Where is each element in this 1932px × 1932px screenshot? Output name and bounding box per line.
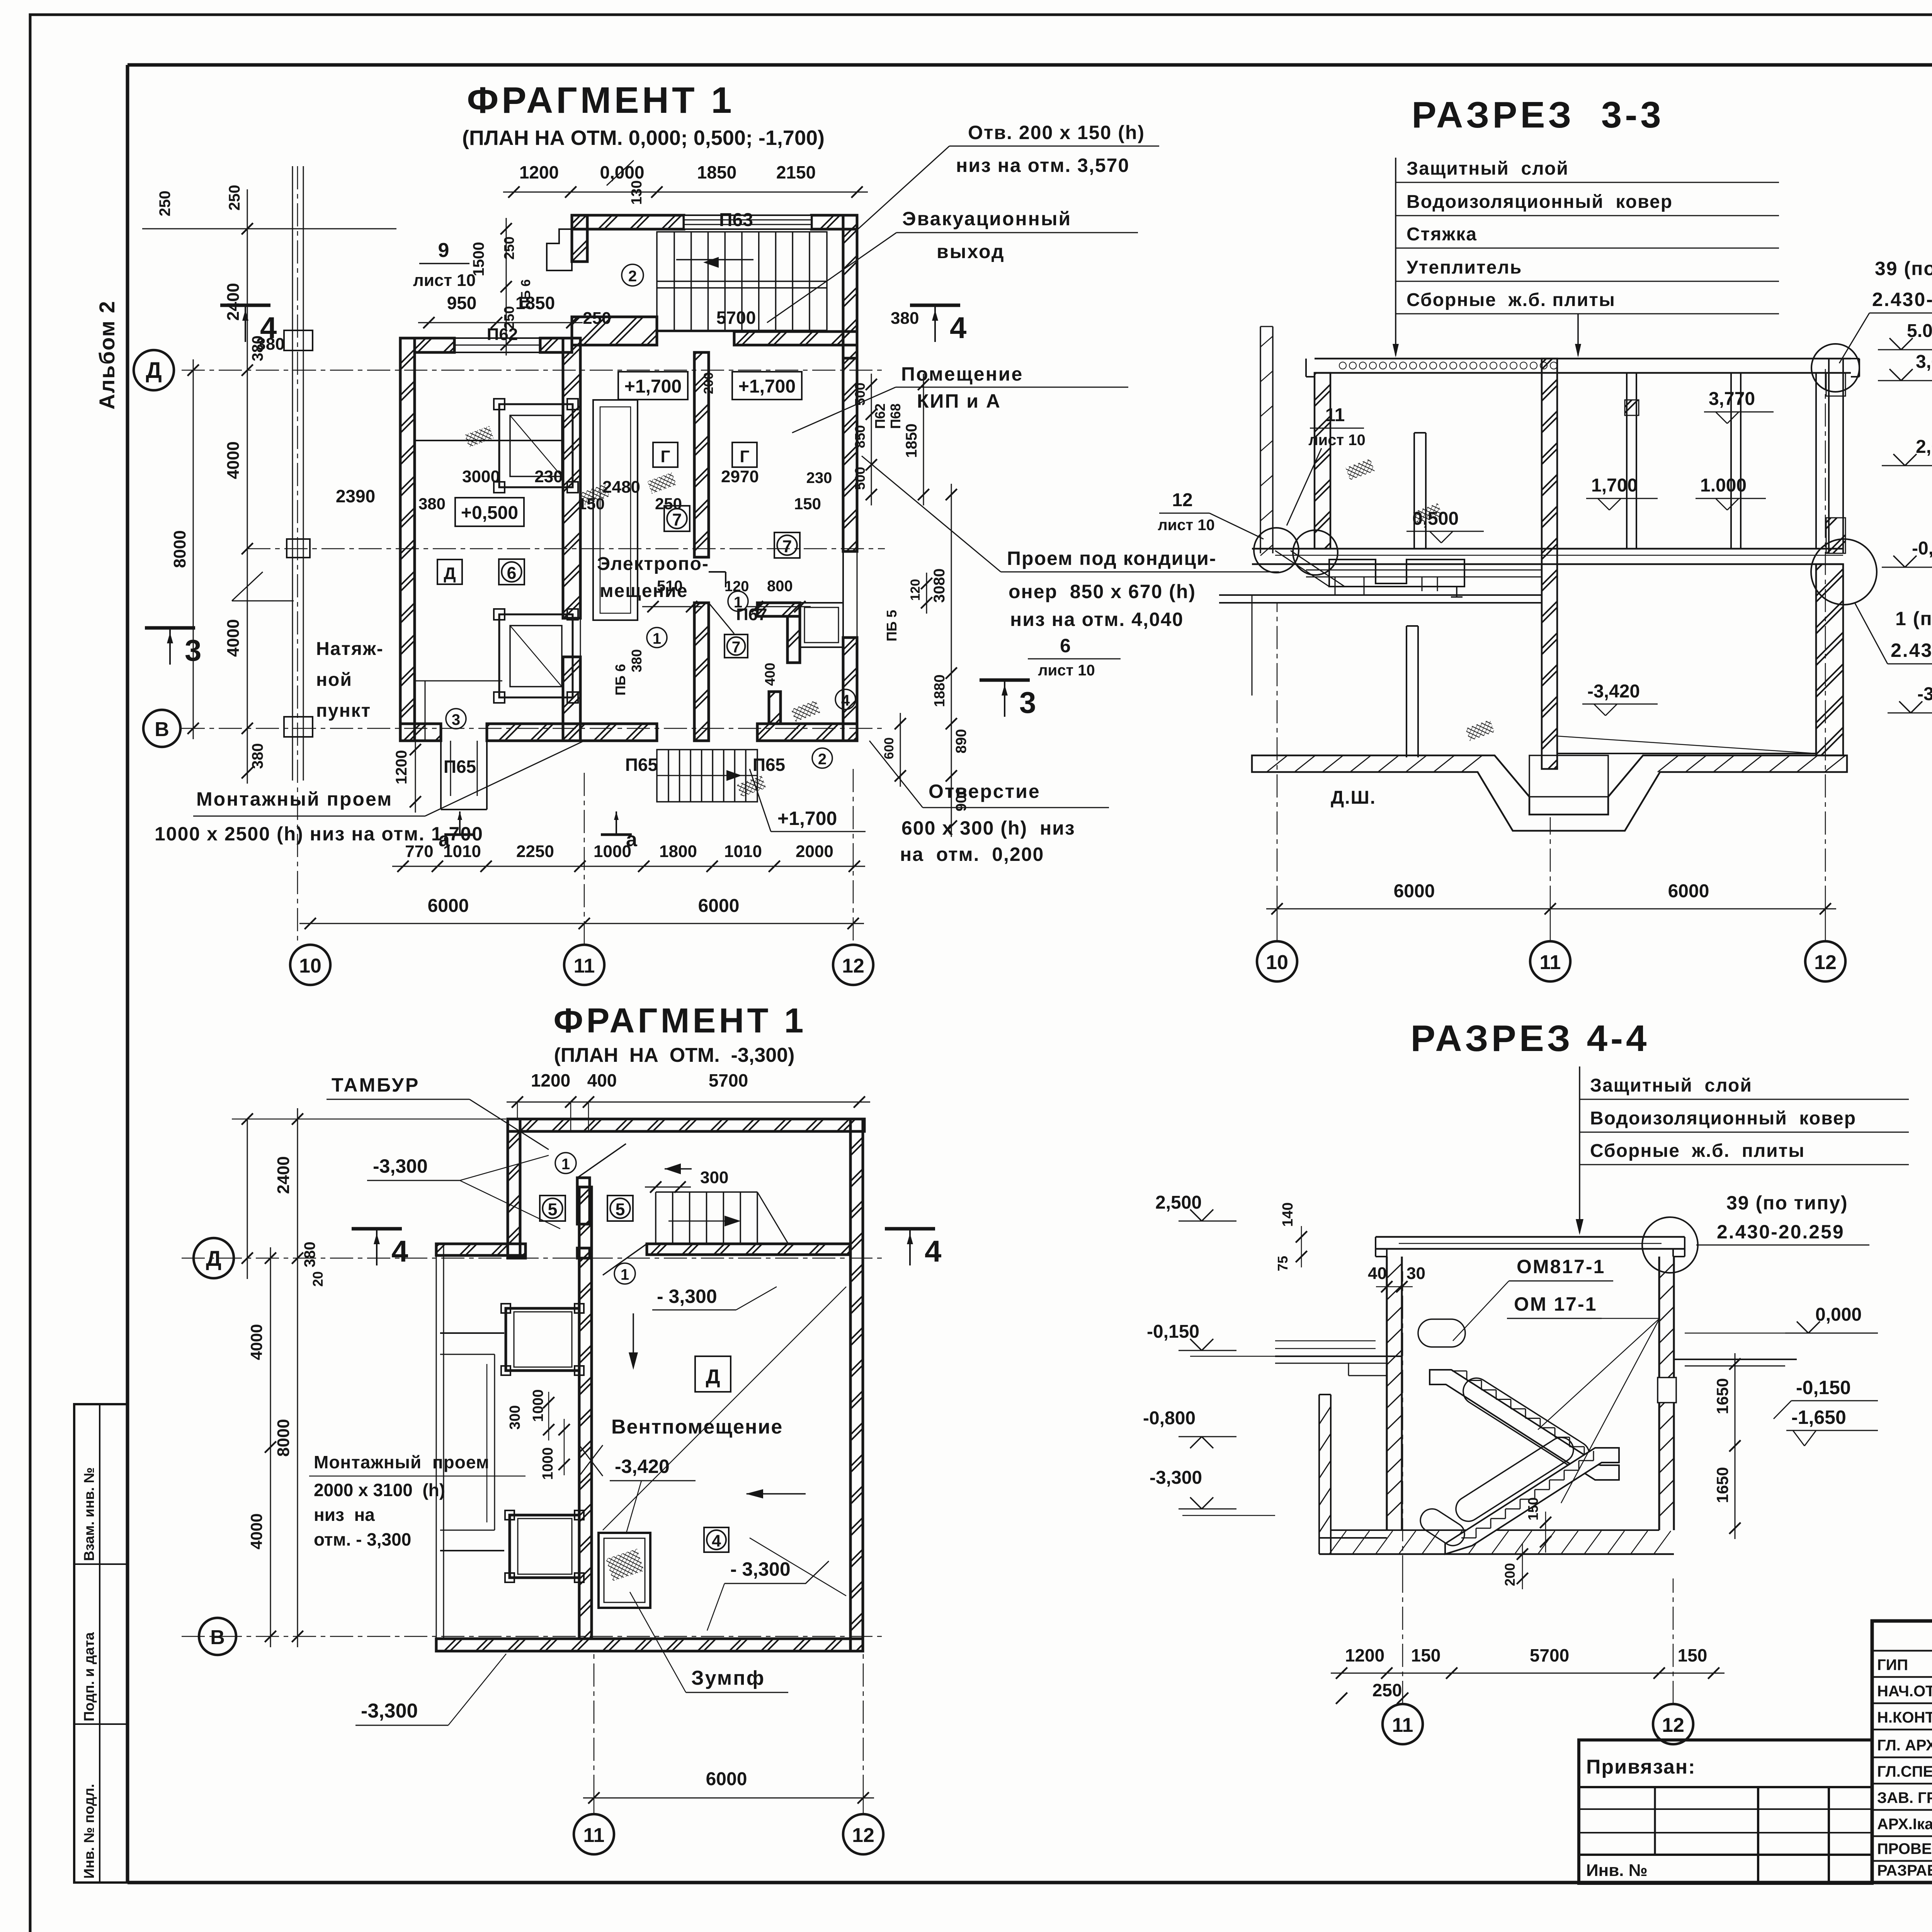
plan2 duct shaft upper: [501, 1304, 584, 1375]
svg-text:2400: 2400: [224, 283, 243, 321]
plan2 left dim chain: [232, 1108, 506, 1647]
section44 axis circle 12: [1653, 1704, 1693, 1744]
title block staff table: [1872, 1621, 1932, 1883]
svg-text:20: 20: [310, 1271, 326, 1287]
svg-text:200: 200: [1502, 1563, 1518, 1586]
svg-text:150: 150: [1678, 1645, 1708, 1665]
svg-text:1000 х 2500 (h) низ на отм. 1,: 1000 х 2500 (h) низ на отм. 1,700: [155, 823, 483, 845]
svg-text:600: 600: [882, 737, 896, 759]
svg-text:39 (по типу): 39 (по типу): [1875, 258, 1932, 279]
section33 title: [1412, 94, 1664, 136]
svg-text:Подп. и дата: Подп. и дата: [81, 1632, 97, 1721]
svg-text:7: 7: [672, 510, 682, 529]
svg-text:0,500: 0,500: [1412, 509, 1459, 529]
svg-text:150: 150: [1525, 1497, 1541, 1520]
section44 left wall: [1387, 1257, 1402, 1530]
plan1 axis circle 11: [564, 945, 604, 985]
svg-text:РАЗРАБ.: РАЗРАБ.: [1877, 1862, 1932, 1879]
plan1 axis 12 line: [853, 769, 854, 945]
svg-text:6: 6: [1060, 635, 1071, 656]
svg-text:отм. - 3,300: отм. - 3,300: [314, 1529, 411, 1549]
svg-text:Взам. инв. №: Взам. инв. №: [81, 1467, 97, 1561]
section44 stair labels: [1453, 1256, 1660, 1503]
svg-text:ГИП: ГИП: [1877, 1656, 1908, 1673]
svg-text:890: 890: [953, 729, 969, 753]
svg-text:Инв. №: Инв. №: [1586, 1861, 1648, 1880]
plan2 montage opening partitions: [440, 1333, 603, 1551]
svg-text:1650: 1650: [1713, 1378, 1731, 1414]
title block frame: [1872, 1621, 1932, 1883]
svg-text:3: 3: [1019, 685, 1036, 719]
svg-text:0,000: 0,000: [1815, 1304, 1862, 1325]
svg-text:150: 150: [1411, 1645, 1441, 1665]
plan1 central wall: [563, 338, 580, 741]
plan1 symbol 6 box: [499, 559, 524, 585]
plan2 circled 1 top: [555, 1153, 576, 1173]
svg-text:12: 12: [842, 955, 864, 977]
svg-text:800: 800: [767, 578, 793, 595]
left margin table Взам.инв.№ / Подп. и дата / Инв.№ подл.: [74, 1404, 128, 1883]
plan1 axis 10 line: [297, 166, 298, 945]
svg-text:5700: 5700: [709, 1070, 748, 1090]
plan1 circled 1 electro: [647, 628, 667, 648]
section33 detail circle wall base: [1811, 539, 1877, 605]
plan2 bottom dim 6000: [583, 1651, 874, 1804]
plan2 text -3,300 upper leader: [367, 1155, 560, 1229]
plan1 circled 1 right: [728, 591, 748, 611]
plan1 bottom dim 6000 6000: [299, 896, 864, 929]
plan1 room letter Г boxes: [653, 442, 757, 467]
privyazan table: [1579, 1740, 1872, 1883]
plan1 axis row mid line: [247, 548, 885, 549]
svg-text:П65: П65: [444, 757, 476, 777]
svg-text:-0,150: -0,150: [1912, 538, 1932, 559]
plan1 axis 11 line: [584, 773, 585, 945]
svg-text:Защитный слой: Защитный слой: [1590, 1075, 1752, 1096]
plan1 dim 250-0-150-250 col: [470, 218, 533, 355]
svg-text:2: 2: [818, 751, 827, 768]
svg-text:2000 х 3100 (h): 2000 х 3100 (h): [314, 1480, 445, 1500]
svg-text:30: 30: [1406, 1264, 1425, 1283]
svg-text:Водоизоляционный ковер: Водоизоляционный ковер: [1590, 1108, 1856, 1129]
plan2 axis circle 12: [843, 1798, 883, 1854]
svg-text:Д: Д: [146, 358, 162, 383]
svg-text:11: 11: [1392, 1714, 1413, 1736]
plan1 section mark 4 left: [220, 305, 277, 345]
svg-text:РАЗРЕЗ 4-4: РАЗРЕЗ 4-4: [1411, 1018, 1650, 1059]
svg-text:выход: выход: [937, 241, 1005, 262]
plan1 circled 4: [835, 689, 855, 709]
plan1 dims 510 120 800 row: [642, 578, 811, 624]
svg-text:12: 12: [1662, 1714, 1684, 1736]
plan2 axis B line: [182, 1636, 885, 1637]
section33 axis circle 12: [1805, 909, 1845, 981]
section44 title: [1411, 1018, 1650, 1059]
svg-text:1800: 1800: [659, 842, 697, 861]
svg-text:Проем под кондици-: Проем под кондици-: [1007, 548, 1216, 569]
plan1 leader Отв 200x150: [857, 122, 1159, 230]
svg-text:Защитный слой: Защитный слой: [1406, 158, 1569, 179]
svg-text:П62: П62: [872, 403, 888, 429]
plan1 partition room3: [415, 440, 564, 741]
svg-text:низ на отм. 3,570: низ на отм. 3,570: [956, 155, 1129, 176]
plan1 external stair bottom: [657, 750, 757, 802]
svg-text:1200: 1200: [519, 162, 559, 182]
svg-text:2,000: 2,000: [1916, 437, 1932, 457]
plan1 material hatch marks: [464, 426, 820, 797]
plan1 label P63: [719, 210, 753, 230]
svg-text:Д: Д: [706, 1366, 720, 1388]
svg-text:ПРОВЕР.: ПРОВЕР.: [1877, 1840, 1932, 1857]
plan1 leader Помещение КИП и А: [792, 363, 1128, 433]
section33 bottom dims: [1266, 369, 1836, 915]
svg-text:Монтажный проем: Монтажный проем: [196, 788, 393, 810]
section33 right lower wall: [1816, 564, 1843, 755]
section33 upper left wall: [1315, 373, 1330, 549]
svg-text:250: 250: [583, 309, 611, 328]
plan1 corner room small walls: [757, 603, 843, 724]
svg-text:4: 4: [950, 311, 966, 345]
svg-text:11: 11: [1325, 405, 1345, 425]
plan2 axis D line: [182, 1258, 885, 1259]
svg-text:- 3,300: - 3,300: [657, 1286, 717, 1307]
svg-text:Г: Г: [740, 447, 750, 466]
svg-text:200: 200: [701, 372, 716, 394]
svg-text:600 х 300 (h) низ: 600 х 300 (h) низ: [901, 817, 1075, 839]
svg-text:4: 4: [841, 692, 850, 709]
plan1 room text Электропомещение: [597, 554, 709, 601]
svg-text:ФРАГМЕНТ 1: ФРАГМЕНТ 1: [554, 1002, 807, 1040]
plan1 dim 380 left: [256, 335, 284, 354]
section33 callout 1 po tipu: [1855, 603, 1932, 664]
svg-text:лист 10: лист 10: [1038, 662, 1095, 679]
svg-text:Инв. № подл.: Инв. № подл.: [81, 1784, 97, 1879]
svg-text:низ на отм. 4,040: низ на отм. 4,040: [1010, 609, 1184, 630]
plan1 level box +0,500: [455, 498, 524, 526]
section33 axis circle 11: [1530, 909, 1570, 981]
plan2 montage note: [309, 1452, 526, 1549]
svg-text:1: 1: [621, 1266, 629, 1283]
svg-text:+1,700: +1,700: [624, 376, 682, 397]
section44 roof slab: [1376, 1237, 1685, 1257]
svg-text:РАЗРЕЗ 3-3: РАЗРЕЗ 3-3: [1412, 94, 1664, 136]
svg-text:6000: 6000: [1668, 881, 1709, 901]
plan2 circled 1 mid: [614, 1263, 635, 1284]
plan1 symbol 7 box right: [774, 532, 800, 558]
svg-text:-0,150: -0,150: [1147, 1321, 1199, 1342]
section33 upper right columns: [1625, 373, 1816, 549]
svg-text:3: 3: [185, 633, 201, 667]
svg-text:850: 850: [852, 425, 868, 448]
plan1 level box +1,700 right: [732, 372, 802, 400]
plan2 boxed 5 symbols: [540, 1196, 633, 1221]
svg-text:1,700: 1,700: [1591, 475, 1638, 496]
svg-text:6000: 6000: [706, 1769, 747, 1789]
section44 roof layers callout: [1576, 1066, 1909, 1235]
svg-text:ОМ817-1: ОМ817-1: [1517, 1256, 1605, 1277]
section33 mid wall: [1542, 359, 1557, 769]
plan2 rotated dims 300 1000 1000: [507, 1389, 570, 1480]
svg-text:ТАМБУР: ТАМБУР: [332, 1074, 420, 1096]
section33 label DSh: [1331, 787, 1376, 808]
left margin vertical label Альбом 2: [95, 300, 119, 410]
plan2 central wall: [579, 1187, 592, 1639]
svg-text:1850: 1850: [903, 423, 920, 458]
plan2 zumpf pit: [599, 1533, 650, 1608]
svg-text:40: 40: [1368, 1264, 1387, 1283]
section33 foundation slab: [1252, 755, 1847, 831]
svg-text:6: 6: [507, 564, 517, 583]
svg-text:8000: 8000: [274, 1419, 293, 1457]
plan2 tambour walls: [508, 1131, 626, 1258]
svg-text:12: 12: [1814, 951, 1837, 974]
plan1 dim 5700: [657, 308, 827, 332]
svg-text:Сборные ж.б. плиты: Сборные ж.б. плиты: [1590, 1141, 1805, 1161]
svg-text:+0,500: +0,500: [461, 503, 518, 523]
svg-text:Утеплитель: Утеплитель: [1406, 257, 1522, 278]
plan2 leader Тамбур: [327, 1074, 549, 1150]
section44 left level marks: [1143, 1192, 1387, 1515]
svg-text:6000: 6000: [698, 896, 740, 916]
plan2 axis circle D: [194, 1238, 234, 1278]
svg-text:низ на: низ на: [314, 1505, 375, 1525]
plan1 room letter Д box: [437, 560, 462, 584]
plan2 axis circle 11: [574, 1798, 614, 1854]
svg-text:380: 380: [249, 743, 266, 769]
svg-text:Эвакуационный: Эвакуационный: [902, 208, 1071, 230]
plan2 stair room wall: [603, 1244, 850, 1275]
plan2 section mark 4 right: [885, 1229, 941, 1268]
section44 dim 150 200 small: [1502, 1497, 1551, 1589]
section33 lower interior wall left: [1406, 626, 1418, 757]
svg-text:380: 380: [629, 649, 645, 672]
svg-text:ПБ 6: ПБ 6: [612, 664, 628, 696]
svg-text:250: 250: [226, 185, 243, 211]
svg-text:АРХ.Iкат.: АРХ.Iкат.: [1877, 1816, 1932, 1833]
svg-text:П65: П65: [625, 755, 658, 775]
svg-text:250: 250: [501, 236, 517, 260]
section33 floor beam profile: [1275, 551, 1464, 597]
plan1 circled 3: [446, 709, 466, 729]
svg-text:Вентпомещение: Вентпомещение: [611, 1416, 783, 1438]
svg-text:11: 11: [583, 1824, 605, 1847]
svg-text:9: 9: [438, 239, 449, 262]
svg-text:5.000: 5.000: [1907, 321, 1932, 341]
svg-text:П67: П67: [736, 605, 767, 624]
svg-text:а: а: [626, 828, 638, 851]
plan1 left outer wall: [400, 338, 415, 741]
svg-text:-0,150: -0,150: [1796, 1377, 1851, 1398]
svg-text:ОМ 17-1: ОМ 17-1: [1514, 1293, 1597, 1315]
section33 hatch marks: [1345, 459, 1495, 741]
plan2 duct shaft lower: [505, 1510, 584, 1582]
svg-text:-3,420: -3,420: [1587, 681, 1640, 702]
plan1 dim 380 200 small: [612, 372, 778, 696]
svg-text:онер 850 х 670 (h): онер 850 х 670 (h): [1009, 581, 1196, 602]
plan1 right dim col 3080 890 900: [931, 484, 969, 837]
plan1 axis row D line: [182, 370, 885, 371]
section33 right wall: [1826, 359, 1845, 553]
plan1 hoist opening upper: [494, 399, 578, 493]
plan1 dim 1200 porch: [393, 739, 421, 813]
section33 lower right room floor: [1557, 736, 1816, 753]
plan1 wall on axis 10: [232, 166, 313, 781]
plan2 title: [554, 1002, 807, 1066]
plan2 text Вентпомещение: [611, 1416, 783, 1438]
section33 callout circles floor: [1254, 528, 1338, 575]
plan1 title ФРАГМЕНТ 1: [462, 80, 825, 150]
svg-text:4000: 4000: [247, 1514, 265, 1549]
plan1 small partition marks: [709, 572, 734, 634]
plan1 circled 2 stair: [622, 264, 643, 286]
svg-text:140: 140: [1280, 1202, 1296, 1227]
plan2 axis circle B: [199, 1618, 236, 1655]
svg-text:230: 230: [806, 469, 832, 486]
svg-text:-1,650: -1,650: [1791, 1406, 1846, 1428]
plan1 label +1,700 bottom: [750, 769, 866, 832]
plan1 circled 2 bottom: [812, 748, 832, 768]
svg-text:12: 12: [852, 1824, 874, 1847]
svg-text:380: 380: [418, 495, 446, 513]
svg-text:КИП и А: КИП и А: [917, 390, 1001, 412]
svg-text:Отв. 200 х 150 (h): Отв. 200 х 150 (h): [968, 122, 1145, 143]
section33 mid floor slab: [1252, 549, 1843, 595]
section44 right wall: [1658, 1257, 1676, 1530]
plan1 dim 950 1850 line: [418, 293, 611, 344]
section44 left annex: [1319, 1395, 1387, 1554]
section33 level 1000: [1696, 475, 1766, 510]
svg-text:П68: П68: [888, 403, 903, 429]
svg-text:1200: 1200: [393, 750, 410, 784]
plan2 text -3,420: [610, 1456, 696, 1534]
svg-text:Д.Ш.: Д.Ш.: [1331, 787, 1376, 808]
svg-text:6000: 6000: [1394, 881, 1435, 901]
svg-text:лист 10: лист 10: [1308, 432, 1365, 449]
svg-text:Стяжка: Стяжка: [1406, 224, 1477, 245]
plan1 axis circle 12: [833, 945, 873, 985]
svg-text:7: 7: [732, 638, 741, 656]
svg-text:Монтажный проем: Монтажный проем: [314, 1452, 490, 1472]
svg-text:2970: 2970: [721, 467, 759, 486]
svg-text:В: В: [210, 1626, 225, 1649]
svg-text:4: 4: [260, 311, 277, 345]
svg-text:-3,300: -3,300: [373, 1155, 428, 1177]
svg-text:Сборные ж.б. плиты: Сборные ж.б. плиты: [1406, 290, 1616, 310]
svg-text:300: 300: [507, 1405, 523, 1430]
plan1 ref 9 list 10: [413, 239, 476, 290]
plan1 montage opening label: [155, 741, 584, 845]
svg-text:Альбом 2: Альбом 2: [95, 300, 119, 410]
svg-text:230: 230: [534, 467, 563, 486]
svg-text:500: 500: [852, 383, 868, 406]
svg-text:300: 300: [700, 1168, 728, 1187]
svg-text:130: 130: [629, 180, 645, 205]
svg-text:-3,300: -3,300: [361, 1700, 418, 1722]
svg-text:2.430-20.259: 2.430-20.259: [1872, 289, 1932, 310]
svg-text:пункт: пункт: [316, 701, 371, 721]
svg-text:39 (по типу): 39 (по типу): [1726, 1192, 1848, 1214]
section33 callout 39 po tipu: [1839, 258, 1932, 363]
section33 detail circle roof right: [1811, 344, 1859, 392]
svg-text:500: 500: [852, 467, 868, 490]
svg-text:950: 950: [447, 293, 477, 313]
plan2 diagonal leaders big: [603, 1287, 846, 1596]
plan2 text -3,300 room1: [652, 1286, 777, 1310]
section33 ref 11 list10: [1287, 405, 1366, 526]
svg-text:250: 250: [655, 495, 682, 513]
svg-text:1000: 1000: [530, 1389, 546, 1422]
plan1 duct shaft in electro room: [593, 400, 638, 620]
plan1 section mark 4 top: [910, 305, 966, 345]
plan1 leader Эвакуационный выход: [767, 208, 1138, 323]
svg-text:Н.КОНТР.: Н.КОНТР.: [1877, 1709, 1932, 1726]
section44 stair upper flight: [1418, 1319, 1619, 1480]
section33 roof layers callout: [1393, 158, 1779, 357]
svg-text:-3,420: -3,420: [615, 1456, 670, 1477]
plan1 axis row B line: [182, 728, 885, 729]
plan1 symbol 7 box electro: [664, 506, 690, 531]
plan1 symbol 7 box small: [724, 634, 748, 658]
svg-text:2: 2: [628, 268, 637, 285]
plan1 axis circle D: [134, 350, 174, 390]
svg-text:Д: Д: [206, 1246, 221, 1270]
svg-text:1850: 1850: [697, 162, 736, 182]
svg-text:1200: 1200: [531, 1070, 570, 1090]
svg-text:380: 380: [891, 309, 919, 328]
svg-text:3,770: 3,770: [1709, 389, 1755, 409]
svg-text:1.000: 1.000: [1700, 475, 1747, 496]
svg-text:1000: 1000: [540, 1447, 556, 1480]
svg-text:2.430-20.101: 2.430-20.101: [1891, 639, 1932, 661]
plan2 section mark 4 left: [352, 1229, 408, 1268]
svg-text:11: 11: [1540, 951, 1561, 974]
svg-text:11: 11: [574, 955, 595, 977]
section33 lower left floor: [1219, 595, 1542, 696]
svg-text:5700: 5700: [1530, 1645, 1569, 1665]
plan1 ref 6 list 10: [1028, 635, 1121, 679]
section44 bottom slab: [1319, 1530, 1674, 1554]
section33 upper interior partition left: [1414, 433, 1426, 549]
svg-text:4: 4: [925, 1234, 941, 1268]
svg-text:+1,700: +1,700: [777, 808, 837, 829]
section44 mid floor left stub: [1275, 1356, 1402, 1376]
svg-text:-3,300: -3,300: [1917, 684, 1932, 704]
svg-text:- 3,300: - 3,300: [730, 1558, 791, 1580]
svg-text:-3,300: -3,300: [1150, 1468, 1202, 1488]
svg-text:150: 150: [578, 495, 605, 513]
svg-text:2.430-20.259: 2.430-20.259: [1717, 1221, 1845, 1243]
plan1 bottom dim chain detail: [392, 842, 865, 872]
section33 roof slab: [1306, 359, 1859, 377]
svg-text:5: 5: [548, 1200, 558, 1219]
plan1 right dim 120: [882, 573, 932, 787]
svg-text:Натяж-: Натяж-: [316, 639, 384, 659]
svg-text:12: 12: [1172, 490, 1192, 510]
svg-text:3080: 3080: [931, 568, 948, 603]
svg-text:Зумпф: Зумпф: [691, 1667, 765, 1689]
svg-text:на отм. 0,200: на отм. 0,200: [900, 844, 1044, 865]
svg-text:3,600: 3,600: [1916, 352, 1932, 372]
section33 level 1700: [1586, 475, 1658, 510]
svg-text:400: 400: [762, 663, 778, 686]
plan1 stair treads: [657, 232, 827, 330]
svg-text:8000: 8000: [170, 530, 189, 568]
section44 detail circle: [1642, 1217, 1698, 1273]
plan2 top dims: [507, 1070, 870, 1132]
svg-text:П65: П65: [753, 755, 785, 775]
svg-text:1010: 1010: [724, 842, 762, 861]
svg-text:2,500: 2,500: [1155, 1192, 1202, 1213]
